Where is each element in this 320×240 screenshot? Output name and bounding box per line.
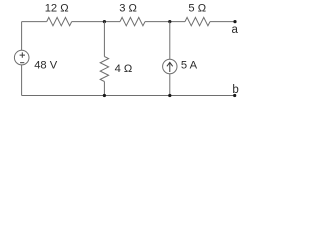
wire bottom horizontal bbox=[22, 95, 235, 97]
wire 4ohm branch lower lead bbox=[103, 82, 105, 96]
voltage source Vs 48V circle bbox=[14, 50, 29, 65]
resistor R 5ohm bbox=[185, 17, 210, 25]
svg-text:48 V: 48 V bbox=[34, 60, 58, 72]
voltage source minus sign bbox=[20, 62, 24, 64]
svg-text:5 A: 5 A bbox=[181, 60, 198, 72]
voltage source plus sign bbox=[20, 52, 25, 57]
wire 5A branch upper lead bbox=[169, 22, 171, 60]
current source Is 5A circle bbox=[163, 59, 177, 73]
svg-text:4 Ω: 4 Ω bbox=[115, 63, 133, 75]
svg-text:a: a bbox=[231, 24, 238, 36]
wire 4ohm branch upper lead bbox=[103, 22, 105, 57]
node junction dot bottom right bbox=[168, 94, 171, 97]
wire left vertical lower bbox=[21, 65, 23, 96]
node junction dot top right bbox=[168, 20, 171, 23]
svg-text:12 Ω: 12 Ω bbox=[45, 2, 69, 14]
svg-text:5 Ω: 5 Ω bbox=[188, 2, 206, 14]
resistor R 12ohm bbox=[47, 17, 72, 25]
current source arrow bbox=[167, 62, 173, 72]
wire top between R12 and node1 bbox=[72, 21, 120, 23]
terminal a dot bbox=[233, 20, 236, 23]
node junction dot bottom middle bbox=[103, 94, 106, 97]
resistor R 4ohm vertical bbox=[100, 57, 108, 82]
wire top between R3 and node2 bbox=[145, 21, 185, 23]
wire 5A branch lower lead bbox=[169, 74, 171, 96]
terminal b dot bbox=[233, 94, 236, 97]
svg-text:3 Ω: 3 Ω bbox=[119, 2, 137, 14]
node junction dot top middle bbox=[103, 20, 106, 23]
wire top to terminal a bbox=[210, 21, 235, 23]
wire left vertical upper bbox=[21, 22, 23, 51]
resistor R 3ohm bbox=[120, 17, 145, 25]
wire top-left horizontal bbox=[22, 21, 47, 23]
svg-text:b: b bbox=[232, 84, 238, 96]
